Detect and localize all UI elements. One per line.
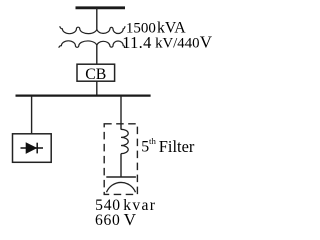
wire from bus to filter xyxy=(120,96,122,130)
transformer T1 secondary winding xyxy=(59,41,125,48)
wire from source bar to transformer primary xyxy=(96,8,98,29)
filter dashed enclosure xyxy=(104,124,137,195)
svg-text:Filter: Filter xyxy=(159,137,195,156)
wire from inductor to capacitor xyxy=(120,154,122,177)
capacitor curved plate xyxy=(107,182,136,192)
svg-text:V: V xyxy=(200,33,213,52)
svg-text:V: V xyxy=(124,210,137,229)
filter inductor L xyxy=(121,129,128,153)
svg-text:11.4: 11.4 xyxy=(122,33,151,52)
main bus xyxy=(16,94,151,96)
converter box xyxy=(13,134,52,163)
svg-text:th: th xyxy=(149,136,156,146)
utility source bar xyxy=(76,6,126,9)
svg-text:660: 660 xyxy=(95,212,121,229)
thyristor/diode symbol xyxy=(21,147,44,149)
capacitor straight plate xyxy=(106,176,136,178)
svg-text:CB: CB xyxy=(85,66,106,83)
wire from CB to bus xyxy=(96,81,98,95)
circuit breaker CB box xyxy=(77,64,115,81)
transformer T1 primary winding xyxy=(60,26,125,34)
svg-text:kVA: kVA xyxy=(157,19,186,36)
wire from bus to converter xyxy=(31,96,33,134)
svg-text:kV/440: kV/440 xyxy=(155,36,199,52)
wire from transformer secondary to CB xyxy=(96,46,98,65)
